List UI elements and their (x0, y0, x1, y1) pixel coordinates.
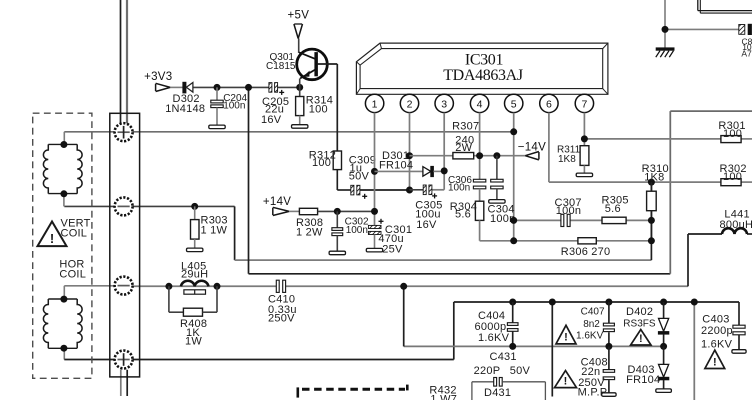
svg-text:TDA4863AJ: TDA4863AJ (443, 67, 523, 84)
svg-text:1W: 1W (185, 336, 202, 348)
svg-text:!: ! (639, 333, 643, 345)
wire top right ground net (y=29.4) (665, 0, 739, 48)
capacitor C204 100n (211, 87, 223, 125)
label D403 FR104 (626, 364, 660, 386)
ground C403 (732, 350, 746, 354)
inductor L405 29uH (181, 281, 208, 294)
node C407 top (605, 299, 612, 306)
node vert coil bottom (60, 190, 67, 197)
resistor R305 5.6 (602, 217, 626, 223)
node x552 top (549, 299, 556, 306)
svg-text:1 2W: 1 2W (296, 227, 323, 239)
node pin2/C309 (406, 187, 413, 194)
svg-text:270: 270 (591, 246, 610, 258)
svg-text:100n: 100n (556, 205, 581, 217)
svg-text:1N4148: 1N4148 (165, 103, 205, 115)
svg-text:1.6KV: 1.6KV (701, 338, 733, 350)
node Q301 emitter (296, 84, 303, 91)
node pin5/plus-terminal wire (510, 128, 517, 135)
wire C307/R305 row (y=220.4) (514, 219, 652, 221)
diode D402 RS3FS (658, 302, 668, 346)
warning triangle yoke (38, 222, 67, 247)
wire vert coil plus terminal to pin5 (y=131.8) (64, 132, 513, 145)
label Q301 C1815 (266, 52, 296, 72)
svg-text:C431: C431 (490, 351, 517, 363)
label R303 1 1W (201, 214, 228, 236)
label D302 1N4148 (165, 93, 205, 115)
label R305 5.6 (602, 194, 629, 215)
node R303 (191, 203, 198, 210)
component box top right corner (698, 0, 752, 13)
label TDA4863AJ (443, 67, 523, 84)
inductor L441 800uH (722, 228, 747, 234)
ground C304 (489, 200, 505, 204)
wire pin3 vertical (431, 113, 444, 190)
ground D403 (656, 389, 672, 393)
svg-text:R307: R307 (452, 121, 479, 133)
node R306/vert-minus net (648, 237, 655, 244)
wire pin1 vertical (374, 113, 376, 226)
resistor R303 1 1W (191, 206, 200, 248)
wire pin2 node to R307 to -14V (410, 155, 526, 157)
capacitor C309 1u 50V (351, 185, 410, 199)
svg-text:100: 100 (309, 103, 328, 115)
label C304 100n (488, 204, 516, 225)
svg-text:!: ! (713, 356, 717, 368)
svg-text:16V: 16V (416, 219, 437, 231)
transistor Q301 C1815 (297, 39, 338, 152)
power input +5V (288, 10, 310, 39)
svg-text:!: ! (564, 375, 568, 387)
label C309 1u 50V (349, 155, 376, 183)
resistor R408 1K 1W (169, 286, 217, 316)
wire hor coil minus terminal net (y=286) (64, 234, 688, 299)
capacitor C403 2200p 1.6KV (733, 302, 745, 350)
label D402 RS3FS (623, 306, 656, 329)
capacitor C306 100n (473, 179, 485, 201)
capacitor C307 100n (561, 214, 570, 226)
wire pin2 vertical (409, 113, 411, 190)
ground C408 (602, 393, 616, 397)
wire pin6 to R302 (549, 113, 752, 183)
ground C204 (209, 125, 225, 129)
label C302 100n (345, 217, 369, 236)
svg-text:8n2: 8n2 (583, 319, 600, 330)
svg-text:6: 6 (546, 98, 552, 110)
node hor coil top (60, 296, 67, 303)
svg-text:2: 2 (407, 98, 413, 110)
capacitor C301 470u 25V (368, 219, 383, 249)
node R307/C304 (493, 152, 500, 159)
pin 3 IC301 (435, 94, 453, 112)
capacitor C205 22u 16V (269, 83, 284, 95)
svg-text:D431: D431 (484, 387, 511, 399)
svg-text:16V: 16V (261, 114, 282, 126)
svg-text:C407: C407 (581, 307, 605, 318)
horizontal deflection coil (43, 299, 82, 348)
label C410 0.33u 250V (268, 293, 297, 324)
node R307/C306 (476, 152, 483, 159)
svg-text:5: 5 (511, 98, 517, 110)
svg-text:2W: 2W (455, 142, 472, 154)
diode D301 FR104 (375, 166, 445, 176)
resistor R311 1K8 (580, 146, 589, 173)
power input +3V3 (144, 71, 172, 91)
capacitor C404 6000p 1.6KV (507, 302, 518, 346)
svg-text:A75: A75 (741, 48, 752, 58)
section cut dashed line R432 (298, 385, 408, 398)
capacitor C8xx at right edge (739, 24, 752, 34)
svg-text:IC301: IC301 (465, 51, 504, 68)
node L405 left (165, 283, 172, 290)
svg-text:C1815: C1815 (266, 61, 296, 72)
capacitor C407 8n2 1.6KV (603, 302, 614, 346)
warning triangle C408 (555, 371, 577, 388)
wire yoke feed lines bottom (121, 370, 127, 396)
label C431 220P 50V (474, 351, 531, 377)
wire vert coil minus terminal net (64, 182, 652, 260)
node pin3/D301 (441, 167, 448, 174)
label HOR COIL (59, 259, 86, 281)
resistor R310 1K8 (647, 182, 657, 241)
pin 5 IC301 (505, 94, 523, 112)
svg-text:FR104: FR104 (626, 374, 660, 386)
wire x=552.3 down (551, 302, 553, 397)
resistor R312 100 (333, 151, 351, 190)
label C403 2200p 1.6KV (701, 313, 733, 350)
node R308/C302 (334, 208, 341, 215)
ground R314 (292, 125, 308, 129)
svg-text:1K8: 1K8 (644, 172, 664, 184)
node +3V3/C204 (214, 84, 221, 91)
node pin1/D301 (371, 168, 378, 175)
label C305 100u 16V (415, 199, 442, 231)
label C8/10/A7 clipped (741, 36, 752, 58)
connector terminal - y=206.4 (115, 197, 133, 215)
label R304 5.6 (450, 201, 477, 221)
wire pin7 to R301 (584, 113, 752, 146)
svg-text:+3V3: +3V3 (144, 71, 172, 83)
dashed deflection yoke enclosure (33, 113, 92, 378)
node x694 top (691, 299, 698, 306)
connector strip (110, 113, 140, 377)
wire L441 net (688, 233, 752, 235)
svg-text:1.6KV: 1.6KV (576, 331, 604, 342)
pin 1 IC301 (365, 94, 383, 112)
node pin2/R307 wire (406, 152, 413, 159)
ground C302 (329, 251, 345, 255)
svg-text:R306: R306 (561, 246, 588, 258)
label C408 22n 250V M.P.P (578, 357, 608, 399)
svg-text:50V: 50V (510, 365, 531, 377)
node hor coil bottom (60, 345, 67, 352)
label C407 8n2 1.6KV (576, 307, 605, 342)
warning triangle C404/C407 (556, 325, 576, 344)
node flyback takeoff (245, 84, 252, 91)
connector terminal + y=359.5 (115, 351, 133, 369)
capacitor C305 100u 16V (410, 185, 438, 198)
label C301 470u 25V (378, 224, 412, 256)
label R306 270 (561, 246, 611, 258)
label VERT COIL (61, 217, 91, 239)
connector terminal - y=285.6 (115, 277, 133, 295)
svg-text:250V: 250V (268, 313, 295, 325)
wire yoke feed lines top (121, 0, 128, 124)
pin 7 IC301 (575, 94, 593, 112)
op-amp IC301 TDA4863AJ package (356, 43, 608, 94)
svg-text:2200p: 2200p (701, 325, 733, 337)
pin 2 IC301 (400, 94, 418, 112)
svg-text:100: 100 (723, 128, 742, 140)
svg-text:1 1W: 1 1W (201, 225, 228, 237)
svg-text:7: 7 (581, 98, 587, 110)
node C404 top (509, 299, 516, 306)
svg-text:5.6: 5.6 (605, 203, 621, 215)
label R312 100 (309, 150, 336, 170)
resistor R307 240 2W (453, 153, 474, 159)
label C306 100n (448, 175, 472, 194)
label R307 240 2W (452, 121, 479, 154)
node pin5/C307 (510, 217, 517, 224)
svg-text:1: 1 (372, 98, 378, 110)
resistor R301 100 (721, 136, 741, 143)
svg-text:D402: D402 (626, 306, 653, 318)
node C407/C408 (605, 343, 612, 350)
svg-text:100n: 100n (346, 225, 368, 236)
wire +3V3 rail (y=87.4) (170, 86, 300, 88)
svg-text:!: ! (50, 231, 54, 246)
node pin5/R306 wire (510, 237, 517, 244)
label IC301 (465, 51, 504, 68)
node top-right ground junction (662, 26, 669, 33)
resistor R304 5.6 (475, 201, 483, 241)
svg-text:29uH: 29uH (181, 268, 208, 280)
label C404 6000p 1.6KV (475, 310, 510, 344)
vertical deflection coil (43, 144, 82, 193)
capacitor C408 22n 250V M.P.P (603, 346, 614, 392)
capacitor C304 100n (491, 156, 503, 200)
node pin6/R310 (648, 179, 655, 186)
wire +3V3 node down to flyback rail (x=248.5) (249, 87, 752, 273)
svg-text:RS3FS: RS3FS (623, 318, 656, 329)
node D402/D403 (660, 343, 667, 350)
label C205 22u 16V (261, 96, 289, 126)
node L405 right (214, 283, 221, 290)
svg-text:COIL: COIL (59, 269, 86, 281)
svg-text:800uH: 800uH (720, 219, 752, 231)
svg-text:4: 4 (477, 98, 483, 110)
svg-text:5.6: 5.6 (455, 209, 471, 221)
svg-text:−14V: −14V (518, 141, 546, 153)
label R308 1 2W (296, 217, 323, 238)
label D301 FR104 (379, 150, 413, 172)
node hor-minus / x403 (400, 283, 407, 290)
svg-text:50V: 50V (349, 171, 370, 183)
node R308/pin1 (371, 208, 378, 215)
capacitor C410 0.33u 250V (276, 280, 285, 292)
node vert coil top (60, 141, 67, 148)
svg-text:100: 100 (723, 171, 742, 183)
svg-text:3: 3 (441, 98, 447, 110)
svg-text:100n: 100n (223, 100, 245, 111)
wire hor minus node down (x=403.7) (403, 286, 405, 346)
capacitor C302 100n (332, 211, 343, 251)
resistor R306 270 (578, 238, 596, 244)
label R310 1K8 (642, 163, 669, 184)
label R302 100 (720, 163, 747, 183)
warning triangle C403 (705, 350, 725, 368)
node pin7/R311 (581, 135, 588, 142)
svg-text:+5V: +5V (288, 10, 310, 22)
warning triangle D402 (631, 330, 651, 346)
node D402 top (660, 299, 667, 306)
pin 6 IC301 (540, 94, 558, 112)
svg-text:!: ! (564, 332, 568, 344)
svg-text:1.6KV: 1.6KV (478, 332, 510, 344)
resistor R302 100 (721, 179, 741, 186)
wire pin4 vertical (479, 113, 481, 180)
label R301 100 (718, 120, 745, 140)
resistor R308 1 2W (289, 208, 374, 214)
ground R311 (576, 173, 592, 177)
svg-text:100: 100 (312, 157, 331, 169)
capacitor C431 220P 50V (472, 378, 546, 401)
wire pin5 vertical (513, 113, 515, 241)
diode D431 label (484, 387, 511, 399)
label R408 1K 1W (180, 318, 207, 348)
svg-text:+14V: +14V (263, 196, 291, 208)
wire hor coil plus terminal net (y=359.5) (64, 302, 454, 360)
diode D403 FR104 (658, 346, 668, 389)
power input +14V (263, 196, 291, 215)
label R311 1K8 (557, 145, 581, 166)
resistor R314 100 (296, 97, 304, 125)
wire R306 row (y=240.8) (480, 240, 652, 242)
wire x=694.3 down (693, 302, 695, 400)
svg-text:1K8: 1K8 (558, 154, 576, 165)
svg-text:FR104: FR104 (379, 160, 413, 172)
svg-text:COIL: COIL (61, 228, 88, 240)
svg-text:220P: 220P (474, 365, 501, 377)
label R314 100 (306, 95, 333, 116)
label L405 29uH (181, 261, 208, 281)
label R432 (429, 384, 457, 405)
wire bottom rail (y=302) (454, 301, 739, 303)
connector terminal + y=132.2 (115, 123, 133, 141)
power output -14V (518, 141, 546, 160)
node C404 bottom (509, 343, 516, 350)
svg-text:M.P.P: M.P.P (578, 387, 608, 399)
svg-text:C403: C403 (702, 313, 729, 325)
pin 4 IC301 (470, 94, 488, 112)
node R305/R310 (648, 217, 655, 224)
svg-text:1 W7: 1 W7 (430, 394, 457, 401)
ground C301 (366, 248, 382, 252)
ground R303 (187, 248, 203, 252)
diode D302 1N4148 (183, 82, 193, 93)
earth ground top right (656, 48, 674, 57)
svg-text:25V: 25V (382, 244, 403, 256)
svg-text:100n: 100n (448, 183, 470, 194)
wire snubber rail (y=346.4) (404, 345, 664, 347)
label C307 100n (555, 197, 582, 217)
label L441 800uH (720, 209, 752, 231)
label C204 100n (223, 93, 247, 111)
